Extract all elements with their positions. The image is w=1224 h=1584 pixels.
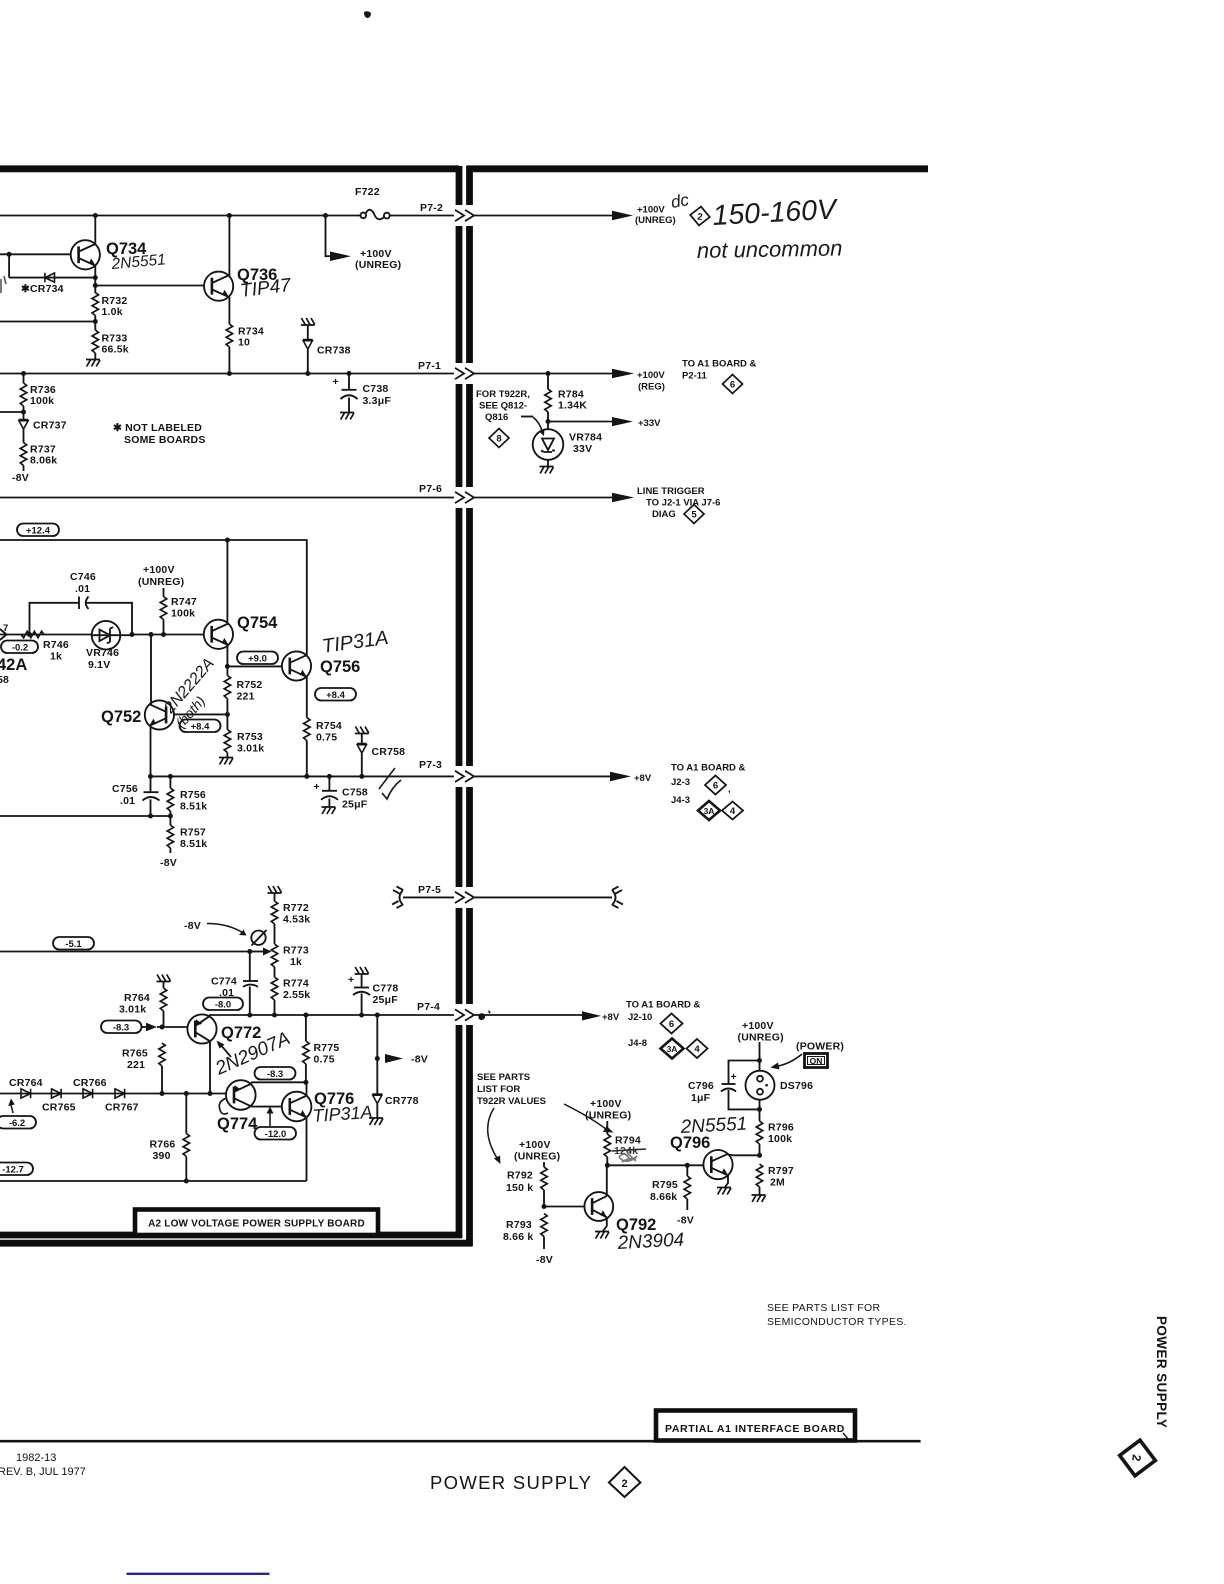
svg-text:-8V: -8V <box>677 1215 694 1227</box>
wire P7-2 rail <box>0 215 454 217</box>
arrow +100V (UNREG) <box>330 252 351 262</box>
svg-text:0.75: 0.75 <box>314 1054 335 1066</box>
note NOT LABELED SOME BOARDS <box>113 422 206 446</box>
svg-text:-5.1: -5.1 <box>65 939 82 950</box>
diamond 5 <box>684 505 704 524</box>
svg-text:(REG): (REG) <box>638 382 665 393</box>
node R795 tie <box>685 1163 690 1168</box>
text +100V (UNREG) output <box>635 205 676 227</box>
resistor R736 <box>20 374 56 408</box>
svg-text:1μF: 1μF <box>691 1092 711 1104</box>
svg-text:R797: R797 <box>768 1165 794 1177</box>
svg-text:2: 2 <box>697 212 703 223</box>
fuse F722 <box>355 186 390 219</box>
svg-text:+12.4: +12.4 <box>26 526 51 537</box>
svg-text:P7-4: P7-4 <box>417 1001 440 1013</box>
wire base-to-diode vertical <box>8 254 10 277</box>
wire Q772 collector down <box>209 1041 211 1094</box>
svg-text:not uncommon: not uncommon <box>697 235 843 263</box>
oval -0.2 <box>1 641 38 654</box>
svg-text:R765: R765 <box>122 1048 148 1060</box>
svg-text:R774: R774 <box>283 978 309 990</box>
arrow P7-4 output <box>582 1011 601 1020</box>
svg-text:P7-3: P7-3 <box>419 759 442 771</box>
svg-text:R756: R756 <box>180 789 206 801</box>
svg-text:SEE Q812-: SEE Q812- <box>479 401 527 412</box>
wire to Q772 base <box>157 1026 188 1028</box>
wire P7-5 rail left <box>403 896 454 898</box>
text TO A1 BOARD & J2-10 <box>626 1000 701 1024</box>
capacitor C758 <box>314 776 368 814</box>
wire P7-6 output <box>474 497 614 499</box>
svg-text:-8V: -8V <box>184 920 201 932</box>
wire Q774 collector to Q776 base <box>252 1106 283 1108</box>
supply stub -8V <box>12 466 29 485</box>
svg-text:dc: dc <box>669 190 690 212</box>
svg-text:P7-2: P7-2 <box>420 202 443 214</box>
svg-text:J4-3: J4-3 <box>671 795 690 806</box>
svg-text:+9.0: +9.0 <box>248 654 267 665</box>
node P7-1/CR738 <box>305 371 310 376</box>
connector stub P7-5 right <box>612 887 623 909</box>
capacitor C738 <box>333 374 392 420</box>
diamond 6 (P7-3) <box>705 776 731 796</box>
svg-text:✱CR734: ✱CR734 <box>21 283 64 295</box>
resistor R734 <box>226 324 264 349</box>
connector chevrons P7-4 <box>455 1009 474 1020</box>
svg-text:Q752: Q752 <box>101 708 141 726</box>
zener VR784 <box>533 422 602 474</box>
diamond 2 (right margin, rotated) <box>1117 1438 1158 1479</box>
svg-text:1.0k: 1.0k <box>102 306 123 318</box>
node C746 left <box>27 632 32 637</box>
svg-text:+100V: +100V <box>637 205 665 216</box>
arrow P7-3 output <box>610 772 631 782</box>
svg-text:100k: 100k <box>30 395 54 407</box>
arrow +33V <box>612 417 633 426</box>
capacitor C746 feedback <box>30 571 133 635</box>
resistor R764 with ground above <box>119 975 171 1028</box>
svg-text:100k: 100k <box>768 1133 792 1145</box>
svg-text:6: 6 <box>713 781 718 792</box>
resistor R772 <box>271 894 310 945</box>
transistor Q772 (PNP, emitter up) <box>187 1014 261 1043</box>
svg-text:CR738: CR738 <box>317 345 351 357</box>
svg-text:(UNREG): (UNREG) <box>138 576 184 588</box>
resistor R765 <box>122 1043 165 1094</box>
node bottom rail/R766 <box>184 1179 189 1184</box>
wire base rail to Q754 <box>132 634 204 636</box>
resistor R757 <box>167 816 207 853</box>
node R792/R793/Q792 base <box>542 1204 547 1209</box>
svg-text:CR778: CR778 <box>385 1095 419 1107</box>
svg-text:100k: 100k <box>171 608 195 620</box>
svg-text:P7-5: P7-5 <box>418 884 441 896</box>
wire Q776 emitter down to rail <box>306 1118 308 1182</box>
svg-text:25μF: 25μF <box>373 994 399 1006</box>
svg-text:CR767: CR767 <box>105 1102 139 1114</box>
svg-text:J2-10: J2-10 <box>628 1012 652 1023</box>
wire to Q752 base <box>174 713 227 715</box>
wire Q736 emitter to P7-1 <box>228 297 230 374</box>
ground above C778 <box>355 967 369 974</box>
wire Q736 collector <box>228 216 230 276</box>
svg-text:1k: 1k <box>50 651 62 663</box>
svg-text:SEE PARTS: SEE PARTS <box>477 1072 530 1083</box>
lamp DS796 <box>746 1071 814 1100</box>
svg-text:6: 6 <box>669 1019 674 1030</box>
svg-text:R757: R757 <box>180 827 206 839</box>
resistor R756 <box>167 776 207 816</box>
svg-text:8.51k: 8.51k <box>180 801 207 813</box>
svg-text:Q756: Q756 <box>320 658 360 676</box>
svg-text:3.3μF: 3.3μF <box>363 395 392 407</box>
wire P7-1 output <box>474 373 614 375</box>
wire Q756 emitter down <box>306 677 308 776</box>
wire P7-4 output <box>474 1014 584 1016</box>
svg-text:8.66 k: 8.66 k <box>503 1231 533 1243</box>
svg-text:Q816: Q816 <box>485 412 508 423</box>
arrow P7-6 output <box>612 493 634 503</box>
node -5.1/C774 <box>247 949 252 954</box>
transistor Q736 <box>204 266 277 301</box>
svg-text:-8V: -8V <box>12 472 29 484</box>
svg-text:2: 2 <box>1129 1454 1144 1463</box>
A1 board left edge bar (segments with connector gaps) <box>466 166 473 1246</box>
node diode rail/R766 <box>184 1091 189 1096</box>
svg-text:42A: 42A <box>0 656 27 674</box>
node P7-3/CR758 <box>359 774 364 779</box>
A2 board bottom border upper line <box>0 1232 462 1239</box>
wire to Q736 base <box>95 285 204 287</box>
svg-text:1k: 1k <box>290 956 302 968</box>
resistor R797 <box>752 1164 794 1202</box>
stray blue mark bottom <box>127 1573 270 1575</box>
ground below Q796 emitter <box>717 1176 731 1195</box>
oval -12.7 <box>0 1163 33 1176</box>
node R752/R753/Q752 base <box>225 712 230 717</box>
svg-text:(UNREG): (UNREG) <box>514 1151 560 1163</box>
text +100V (UNREG) above DS796 <box>738 1020 784 1044</box>
svg-text:J2-3: J2-3 <box>671 777 690 788</box>
svg-text:SEE PARTS LIST FOR: SEE PARTS LIST FOR <box>767 1302 880 1314</box>
oval +8.4 (Q752) <box>180 720 221 733</box>
svg-text:CR758: CR758 <box>372 746 406 758</box>
wire Q796 base rail <box>607 1164 703 1166</box>
node P7-1/R736 <box>21 371 26 376</box>
node P7-1/Q736 emitter <box>227 371 232 376</box>
capacitor C774 <box>211 976 258 1000</box>
svg-text:FOR T922R,: FOR T922R, <box>476 389 530 400</box>
ON box <box>805 1054 828 1068</box>
svg-text:C746: C746 <box>70 571 96 583</box>
resistor R795 <box>650 1165 691 1210</box>
resistor R792 <box>506 1162 547 1207</box>
svg-text:+: + <box>333 376 339 388</box>
transistor Q754 <box>204 614 278 649</box>
smudge near chevrons <box>478 1010 491 1020</box>
wire to Q792 base <box>544 1206 585 1208</box>
svg-text:+: + <box>314 781 320 793</box>
svg-text:4: 4 <box>730 806 736 817</box>
wire Q776 collector up <box>306 1082 308 1096</box>
svg-text:TIP31A: TIP31A <box>312 1102 373 1126</box>
svg-text:150-160V: 150-160V <box>712 193 840 232</box>
wire +100V (UNREG) branch <box>326 216 332 257</box>
diamond 3A (P7-4) <box>661 1039 684 1059</box>
resistor R752 <box>224 666 262 714</box>
node P7-3/Q752 emitter <box>148 774 153 779</box>
wire Q772 emitter to P7-4 <box>209 1015 211 1016</box>
resistor R784 <box>545 374 587 422</box>
svg-text:R753: R753 <box>237 731 263 743</box>
svg-text:-12.0: -12.0 <box>265 1129 287 1140</box>
svg-text:8.06k: 8.06k <box>30 455 57 467</box>
resistor R746 (horizontal) <box>21 631 69 662</box>
oval -8.3 with arrow (Q772 base) <box>101 1021 157 1034</box>
node C796 top <box>757 1058 762 1063</box>
node DS796 bottom <box>757 1107 762 1112</box>
svg-text:8.51k: 8.51k <box>180 838 207 850</box>
wire P7-4 rail <box>209 1014 454 1016</box>
svg-text:-8.3: -8.3 <box>267 1069 283 1080</box>
svg-text:P7-6: P7-6 <box>419 483 442 495</box>
svg-text:PARTIAL A1 INTERFACE BOARD: PARTIAL A1 INTERFACE BOARD <box>665 1423 845 1435</box>
oval +8.4 (Q756) <box>315 688 356 701</box>
text TO A1 BOARD & J2-3 <box>671 763 746 789</box>
label box PARTIAL A1 INTERFACE BOARD <box>656 1411 855 1441</box>
A2 board right edge bar (segments with connector gaps) <box>456 166 463 1238</box>
svg-text:LINE TRIGGER: LINE TRIGGER <box>637 486 705 497</box>
node +33V tap <box>546 419 551 424</box>
svg-text:3.01k: 3.01k <box>119 1004 146 1016</box>
label box A2 LOW VOLTAGE POWER SUPPLY BOARD <box>135 1210 378 1236</box>
oval +12.4 <box>17 524 59 537</box>
A2 board top border <box>0 165 459 172</box>
svg-text:Q754: Q754 <box>237 614 278 632</box>
wire Q796 collector to R796/R797 node <box>728 1154 760 1157</box>
wire bottom rail <box>0 1180 307 1182</box>
handwritten checkmark <box>382 780 401 799</box>
diamond 4 (P7-4) <box>687 1039 708 1058</box>
svg-text:POWER SUPPLY: POWER SUPPLY <box>430 1472 592 1493</box>
svg-text:TIP31A: TIP31A <box>321 627 390 658</box>
node P7-4/R774 <box>272 1013 277 1018</box>
wire Q734 collector <box>94 216 96 245</box>
resistor R775 <box>303 1015 340 1082</box>
node P7-4/C778 <box>359 1013 364 1018</box>
svg-text:TO A1 BOARD &: TO A1 BOARD & <box>626 1000 701 1011</box>
svg-text:+33V: +33V <box>638 418 661 429</box>
svg-text:3.01k: 3.01k <box>237 743 264 755</box>
handwritten 2N2907A with arrow <box>212 1028 294 1080</box>
wire P7-3 output <box>474 775 612 777</box>
diamond 4 (P7-3) <box>722 802 743 820</box>
wire Q734 base from edge <box>0 253 71 255</box>
transistor Q774 (PNP) <box>217 1080 258 1133</box>
A1 interface board top border <box>467 165 929 172</box>
svg-text:+: + <box>348 974 354 986</box>
wire C774 vertical <box>249 952 251 1016</box>
svg-text:VR784: VR784 <box>569 432 602 444</box>
wire Q734 emitter down <box>94 266 96 293</box>
wire row to left edge <box>0 316 95 331</box>
wire -5.1 rail from edge <box>0 951 250 953</box>
svg-text:-0.2: -0.2 <box>12 643 28 654</box>
wire Q792 collector up <box>606 1165 608 1196</box>
svg-text:R746: R746 <box>43 639 69 651</box>
transistor Q734 <box>71 240 147 269</box>
ground below R733 <box>86 353 100 367</box>
node R764/R765/base <box>160 1025 165 1030</box>
node P7-4/C774 <box>247 1013 252 1018</box>
svg-text:+8.4: +8.4 <box>191 722 210 733</box>
svg-text:+100V: +100V <box>519 1139 551 1151</box>
wire P7-6 rail <box>0 497 454 499</box>
capacitor C778 <box>348 974 398 1015</box>
node Q752 collector tie <box>149 632 154 637</box>
wire Q754 emitter down <box>226 645 228 666</box>
svg-text:2.55k: 2.55k <box>283 989 310 1001</box>
svg-text:CR765: CR765 <box>42 1102 76 1114</box>
svg-text:+8V: +8V <box>602 1012 620 1023</box>
note FOR T922R SEE Q812-Q816 <box>476 389 545 436</box>
diode CR764 <box>21 1089 31 1099</box>
svg-text:+100V: +100V <box>637 370 665 381</box>
text -8V with arrow to pot <box>184 920 247 936</box>
svg-text:+100V: +100V <box>590 1098 622 1110</box>
connector stub P7-5 left <box>392 887 403 909</box>
svg-text:TO J2-1 VIA J7-6: TO J2-1 VIA J7-6 <box>646 498 720 509</box>
resistor R793 <box>503 1214 547 1250</box>
svg-text:CR764: CR764 <box>9 1077 43 1089</box>
node on rail at +100V tap <box>323 213 328 218</box>
diode CR778 branch <box>369 1015 428 1125</box>
A1 partial border bottom line <box>0 1240 473 1247</box>
svg-text:C778: C778 <box>373 983 399 995</box>
svg-text:DS796: DS796 <box>780 1080 813 1092</box>
svg-text:R793: R793 <box>506 1219 532 1231</box>
svg-text:+: + <box>731 1071 737 1083</box>
wire to Q756 base <box>227 665 282 667</box>
wire lower rail from edge <box>0 815 170 817</box>
arrow P7-2 output <box>612 211 633 221</box>
svg-text:R773: R773 <box>283 945 309 957</box>
node lower rail / R756-R757 <box>168 814 173 819</box>
node P7-1/R784 <box>546 371 551 376</box>
oval -6.2 <box>0 1116 36 1129</box>
svg-text:R766: R766 <box>150 1139 176 1151</box>
text +100V (UNREG) above R792 <box>514 1139 560 1163</box>
svg-text:2N5551: 2N5551 <box>679 1114 748 1139</box>
oval -8.3 (Q774) <box>255 1067 296 1080</box>
transistor Q756 <box>282 651 360 680</box>
connector chevrons P7-5 <box>455 892 474 903</box>
svg-text:J4-8: J4-8 <box>628 1038 647 1049</box>
svg-text:C758: C758 <box>342 787 368 799</box>
node VR746 right/C746 <box>130 632 135 637</box>
svg-text:C738: C738 <box>363 383 389 395</box>
wire +12.4 top rail <box>0 540 307 652</box>
svg-text:P7-1: P7-1 <box>418 360 441 372</box>
resistor R754 <box>304 718 342 744</box>
text LINE TRIGGER TO J2-1 VIA J7-6 DIAG <box>637 486 720 520</box>
zener VR746 <box>86 621 132 671</box>
svg-text:10: 10 <box>238 337 250 349</box>
transistor Q796 <box>670 1134 733 1179</box>
svg-text:-8V: -8V <box>160 857 177 869</box>
node R732/R733 with wire to edge <box>93 319 98 324</box>
svg-text:Q772: Q772 <box>221 1024 261 1042</box>
node base-diode tie <box>7 252 12 257</box>
connector chevrons P7-3 <box>455 771 474 782</box>
text +100V (UNREG) above R794 <box>585 1098 631 1122</box>
diode CR767 <box>115 1089 125 1099</box>
svg-text:390: 390 <box>153 1150 171 1162</box>
wire CR764-767 rail <box>0 1093 227 1095</box>
stray cut glyph left edge <box>1 276 6 293</box>
diamond 8 <box>489 429 509 448</box>
svg-text:T922R VALUES: T922R VALUES <box>477 1096 546 1107</box>
wire Q754 collector up <box>226 540 228 624</box>
node R747 tie <box>161 632 166 637</box>
svg-text:VR746: VR746 <box>86 647 119 659</box>
svg-text:(UNREG): (UNREG) <box>738 1032 784 1044</box>
svg-text:C796: C796 <box>688 1080 714 1092</box>
wire DS796 main vertical <box>759 1042 761 1121</box>
svg-text:2: 2 <box>621 1478 627 1490</box>
text +100V (REG) <box>637 370 665 393</box>
svg-text:66.5k: 66.5k <box>102 344 129 356</box>
svg-text:C774: C774 <box>211 976 237 988</box>
svg-text:SEMICONDUCTOR TYPES.: SEMICONDUCTOR TYPES. <box>767 1316 907 1328</box>
svg-text:(POWER): (POWER) <box>796 1041 844 1053</box>
resistor R774 <box>271 977 310 1015</box>
svg-text:221: 221 <box>237 691 255 703</box>
svg-text:9.1V: 9.1V <box>88 659 110 671</box>
resistor R732 <box>92 293 127 319</box>
svg-text:+8.4: +8.4 <box>326 690 345 701</box>
svg-text:-8V: -8V <box>411 1054 428 1066</box>
wire P7-2 output <box>474 215 614 217</box>
node Q736 base tee <box>93 283 98 288</box>
oval -8.0 <box>203 998 243 1011</box>
node P7-4/CR778 <box>375 1013 380 1018</box>
svg-text:4: 4 <box>694 1044 700 1055</box>
svg-text:2N3904: 2N3904 <box>616 1230 685 1255</box>
resistor R794 with struck 124k <box>604 1121 646 1165</box>
wire Q752 emitter down <box>150 726 152 777</box>
svg-text:8.66k: 8.66k <box>650 1191 677 1203</box>
diamond 2 (P7-2) <box>689 206 710 227</box>
svg-text:.01: .01 <box>75 583 90 595</box>
note SEE PARTS LIST FOR SEMICONDUCTOR TYPES <box>767 1302 907 1328</box>
transistor Q776 <box>282 1090 355 1121</box>
oval +9.0 <box>237 652 278 665</box>
svg-text:-6.2: -6.2 <box>9 1118 25 1129</box>
svg-text:(UNREG): (UNREG) <box>585 1110 631 1122</box>
wire +33V branch <box>548 421 614 423</box>
arrow from -6.2 oval <box>8 1099 15 1114</box>
node R775/Q774 emitter/Q776 collector <box>303 1080 308 1085</box>
note SEE PARTS LIST FOR T922R VALUES with arrows <box>477 1072 614 1164</box>
potentiometer R773 <box>250 930 309 977</box>
wire Q774 emitter top rail <box>251 1082 306 1084</box>
svg-text:R772: R772 <box>283 902 309 914</box>
svg-text:1982-13: 1982-13 <box>16 1452 56 1464</box>
text +100V (UNREG) <box>355 248 401 271</box>
svg-text:✱ NOT LABELED: ✱ NOT LABELED <box>113 422 202 434</box>
